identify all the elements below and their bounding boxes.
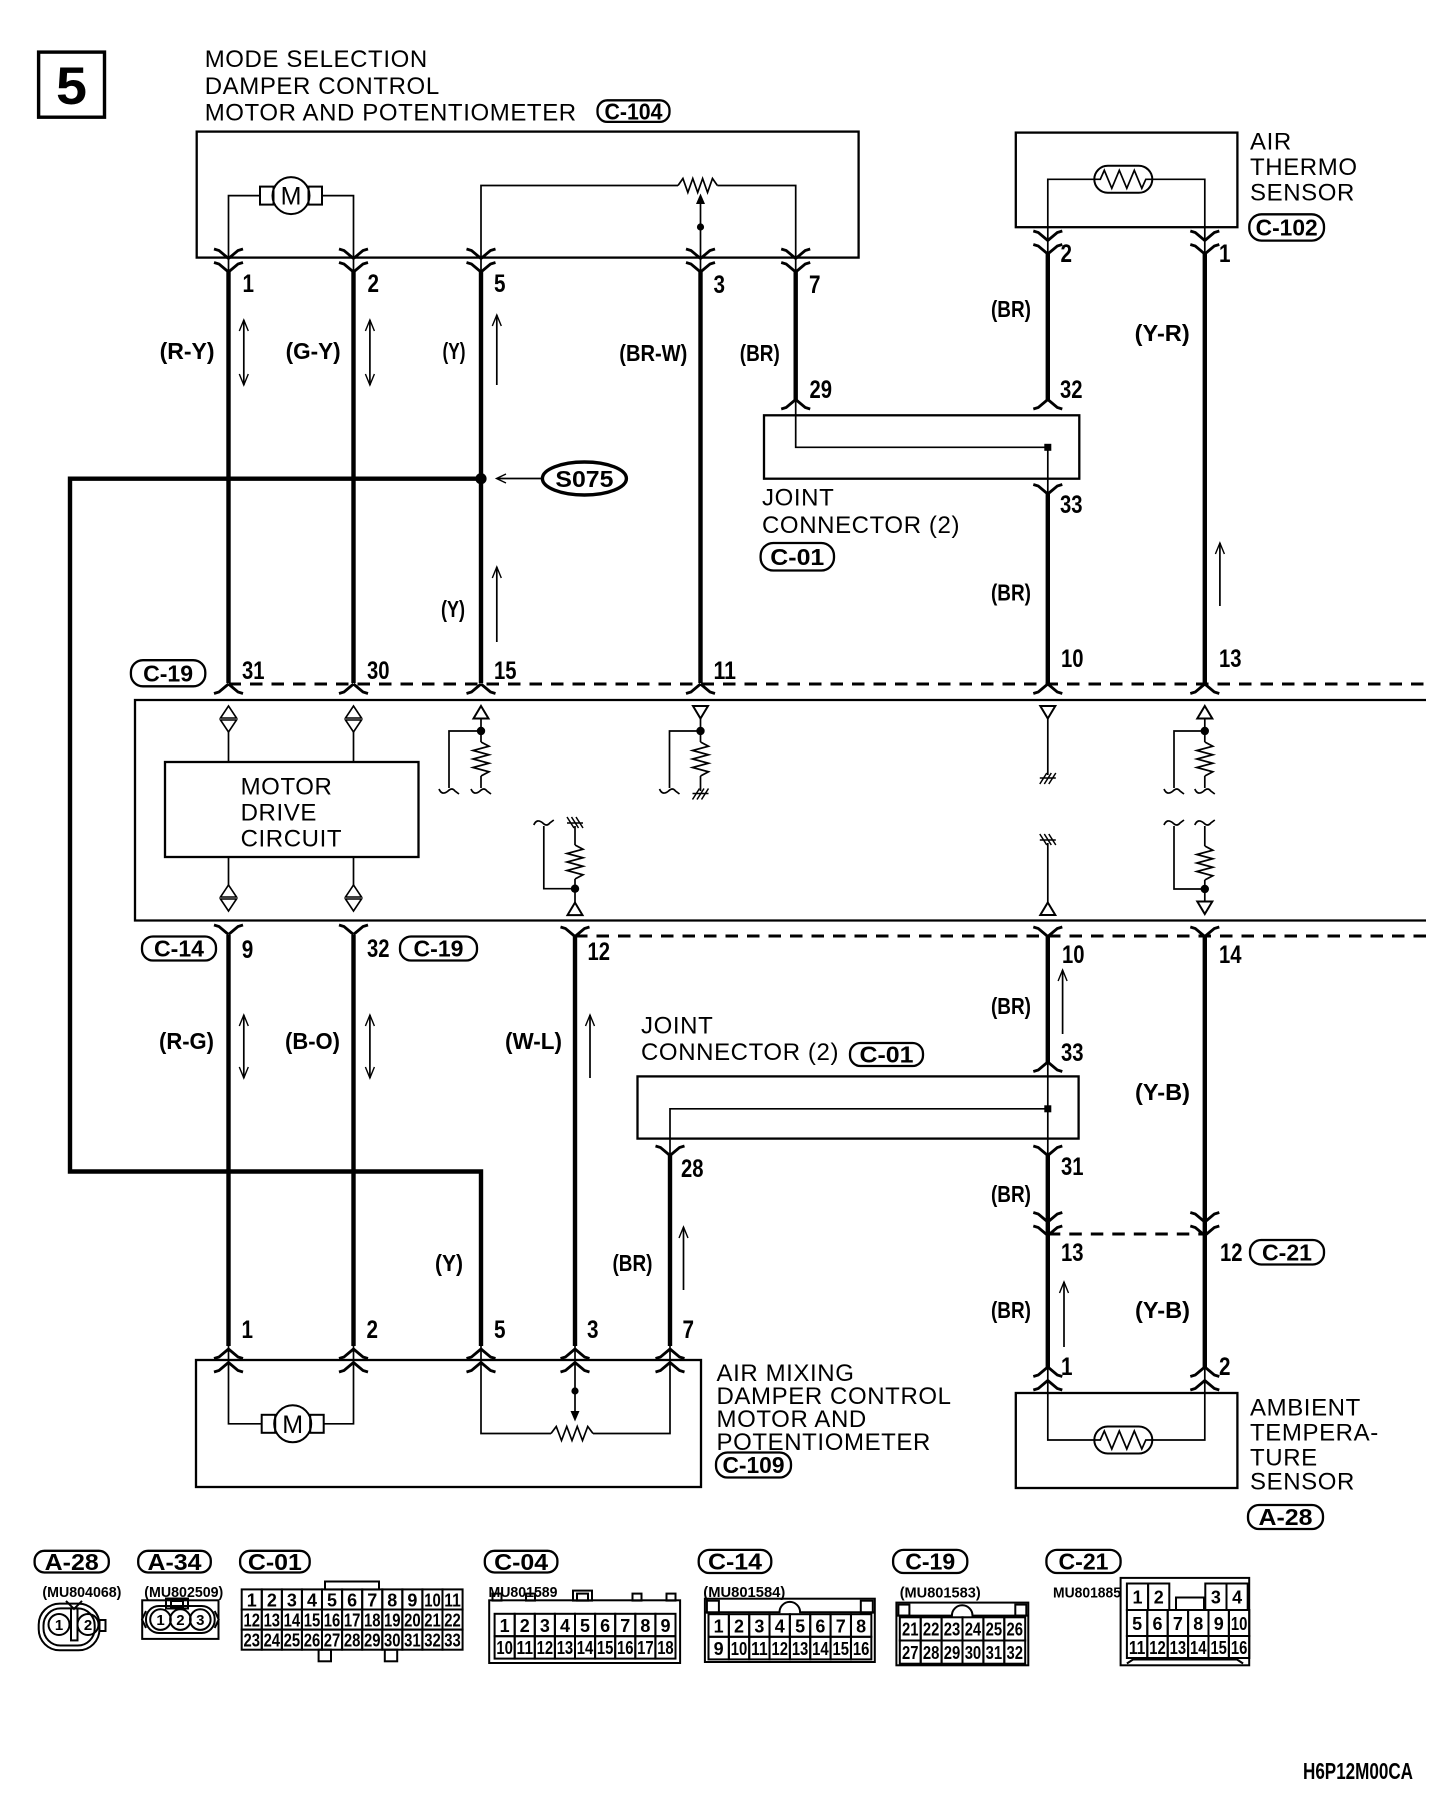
thermistor (ambient temperature sensor) bbox=[1094, 1427, 1152, 1454]
pin 1 of A-28 bbox=[1033, 1381, 1062, 1391]
svg-text:(Y): (Y) bbox=[441, 596, 465, 622]
bidirectional port symbol pin 32 (bottom) bbox=[353, 857, 355, 885]
svg-text:(MU804068): (MU804068) bbox=[42, 1584, 121, 1601]
wire branch from S075 to air mixing damper pin 5 (thick L wire) bbox=[70, 479, 481, 1346]
svg-text:5: 5 bbox=[494, 1316, 506, 1344]
svg-text:25: 25 bbox=[986, 1620, 1003, 1640]
svg-text:31: 31 bbox=[1061, 1153, 1084, 1181]
svg-text:13: 13 bbox=[792, 1639, 809, 1659]
output port + ground pin 10 (top) bbox=[1040, 706, 1055, 719]
motor drive circuit box bbox=[165, 762, 419, 857]
C-21 row2 pin grid bbox=[1127, 1610, 1147, 1636]
svg-text:A-34: A-34 bbox=[148, 1549, 202, 1575]
pinout label A-34 bbox=[138, 1551, 211, 1573]
potentiometer wiper arrow bbox=[700, 203, 702, 258]
svg-text:3: 3 bbox=[754, 1616, 764, 1636]
bidirectional port symbol pin 9 (bottom) bbox=[228, 857, 230, 885]
svg-text:5: 5 bbox=[56, 57, 87, 116]
svg-text:(Y): (Y) bbox=[435, 1250, 463, 1276]
svg-text:29: 29 bbox=[364, 1630, 381, 1650]
svg-text:11: 11 bbox=[1129, 1638, 1146, 1658]
svg-text:(BR): (BR) bbox=[740, 340, 780, 366]
svg-text:AIR: AIR bbox=[1250, 129, 1292, 156]
joint connector (2) C-01 top box bbox=[764, 415, 1079, 478]
potentiometer (mode selection) bbox=[481, 186, 678, 258]
svg-text:12: 12 bbox=[1149, 1638, 1166, 1658]
svg-text:(W-L): (W-L) bbox=[505, 1028, 562, 1054]
svg-text:20: 20 bbox=[404, 1610, 421, 1630]
C-19 connector face drawing bbox=[896, 1603, 1028, 1666]
wire pin33 joint connector to pin10 C-19 (BR) bbox=[1046, 494, 1050, 683]
svg-text:(Y-B): (Y-B) bbox=[1135, 1297, 1190, 1323]
bidirectional port symbol pin 31 bbox=[221, 706, 237, 718]
svg-text:1: 1 bbox=[242, 1316, 254, 1344]
svg-text:12: 12 bbox=[537, 1638, 554, 1658]
svg-text:21: 21 bbox=[902, 1620, 919, 1640]
svg-text:1: 1 bbox=[55, 1617, 63, 1634]
svg-text:15: 15 bbox=[494, 657, 517, 685]
svg-text:10: 10 bbox=[424, 1590, 441, 1610]
svg-text:26: 26 bbox=[304, 1630, 321, 1650]
pin 7 of C-104 bbox=[781, 249, 810, 259]
svg-text:10: 10 bbox=[731, 1639, 748, 1659]
svg-text:28: 28 bbox=[923, 1643, 940, 1663]
svg-text:(MU801583): (MU801583) bbox=[900, 1585, 981, 1602]
svg-text:30: 30 bbox=[965, 1643, 982, 1663]
output port + resistor network + ground pin 11 bbox=[693, 706, 708, 719]
svg-text:AMBIENT: AMBIENT bbox=[1250, 1395, 1361, 1422]
C-21 bottom lip bbox=[1127, 1660, 1243, 1664]
pin 14 of C-19 (bottom) bbox=[1190, 927, 1219, 937]
pin 10 of C-19 (bottom) bbox=[1033, 927, 1062, 937]
svg-text:13: 13 bbox=[1170, 1638, 1187, 1658]
svg-text:(BR): (BR) bbox=[991, 1181, 1031, 1207]
svg-text:5: 5 bbox=[795, 1616, 805, 1636]
connector label C-102 bbox=[1249, 214, 1324, 240]
svg-text:31: 31 bbox=[986, 1643, 1003, 1663]
pinout label A-28 bbox=[35, 1551, 109, 1573]
wire: motor leads to pins 1 and 2 bbox=[229, 196, 261, 258]
svg-text:15: 15 bbox=[597, 1638, 614, 1658]
svg-text:21: 21 bbox=[424, 1610, 441, 1630]
pinout label C-01 bbox=[240, 1551, 310, 1573]
svg-text:M: M bbox=[281, 183, 302, 211]
svg-text:24: 24 bbox=[965, 1620, 982, 1640]
svg-text:10: 10 bbox=[1062, 941, 1085, 969]
svg-text:12: 12 bbox=[243, 1610, 260, 1630]
svg-text:(Y-B): (Y-B) bbox=[1135, 1079, 1190, 1105]
pin 1 of C-104 bbox=[214, 249, 243, 259]
svg-text:7: 7 bbox=[836, 1616, 846, 1636]
svg-text:(BR): (BR) bbox=[991, 1297, 1031, 1323]
svg-text:(BR-W): (BR-W) bbox=[619, 340, 687, 366]
wire pin14 C-19 to pin12 C-21 to pin2 A-28 (Y-B) bbox=[1203, 936, 1207, 1367]
svg-text:8: 8 bbox=[387, 1590, 397, 1610]
input port + pull-up resistor network pin 13 bbox=[1197, 706, 1212, 719]
sheet number box 5 bbox=[39, 52, 105, 117]
svg-text:9: 9 bbox=[714, 1639, 724, 1659]
svg-text:14: 14 bbox=[577, 1638, 594, 1658]
input port + pull-up resistor network pin 15 bbox=[474, 706, 489, 719]
wire pin12 C-19 to pin3 C-109 (W-L) bbox=[573, 936, 577, 1346]
svg-text:C-21: C-21 bbox=[1262, 1239, 1312, 1265]
svg-text:MU801589: MU801589 bbox=[489, 1584, 558, 1601]
pin 5 of C-104 bbox=[467, 249, 496, 259]
pin 31 of C-19 bbox=[214, 684, 243, 694]
svg-text:16: 16 bbox=[853, 1639, 870, 1659]
joint connector bus bar bbox=[796, 400, 1048, 494]
svg-text:7: 7 bbox=[1173, 1614, 1183, 1634]
svg-text:29: 29 bbox=[944, 1643, 961, 1663]
svg-text:MODE SELECTION: MODE SELECTION bbox=[205, 46, 428, 73]
svg-text:9: 9 bbox=[660, 1616, 670, 1636]
svg-text:23: 23 bbox=[944, 1620, 961, 1640]
svg-text:22: 22 bbox=[444, 1610, 461, 1630]
A-34 connector face drawing bbox=[142, 1600, 218, 1639]
svg-text:2: 2 bbox=[84, 1617, 92, 1634]
svg-text:3: 3 bbox=[587, 1316, 599, 1344]
air thermo sensor C-102 box bbox=[1016, 133, 1238, 228]
wire pin2 C-104 to pin30 C-19 (G-Y) bbox=[351, 272, 355, 684]
inline connector C-21 dashed line bbox=[1048, 1233, 1205, 1236]
svg-text:TURE: TURE bbox=[1250, 1445, 1318, 1472]
ground port pin 10 (bottom) bbox=[1040, 834, 1056, 845]
wire pin32 C-19 to pin2 C-109 (B-O) bbox=[351, 935, 355, 1346]
svg-text:MOTOR AND POTENTIOMETER: MOTOR AND POTENTIOMETER bbox=[205, 100, 577, 127]
svg-text:2: 2 bbox=[367, 1316, 379, 1344]
svg-text:(BR): (BR) bbox=[991, 580, 1031, 606]
svg-text:12: 12 bbox=[1220, 1239, 1243, 1267]
svg-text:3: 3 bbox=[196, 1612, 204, 1629]
svg-text:33: 33 bbox=[444, 1630, 461, 1650]
svg-text:2: 2 bbox=[368, 270, 380, 298]
potentiometer (air mixing) bbox=[481, 1360, 551, 1434]
svg-text:1: 1 bbox=[1133, 1588, 1143, 1608]
connector label C-19 bottom bbox=[400, 937, 477, 961]
svg-text:18: 18 bbox=[657, 1638, 674, 1658]
svg-text:10: 10 bbox=[1061, 645, 1084, 673]
svg-text:7: 7 bbox=[809, 271, 821, 299]
pin 10 of C-19 bbox=[1033, 684, 1062, 694]
svg-text:32: 32 bbox=[367, 935, 390, 963]
svg-text:13: 13 bbox=[264, 1610, 281, 1630]
svg-text:8: 8 bbox=[640, 1616, 650, 1636]
pin 15 of C-19 bbox=[467, 684, 496, 694]
motor M (air mixing damper) bbox=[262, 1415, 276, 1433]
pin 3 of C-109 bbox=[561, 1363, 590, 1373]
connector label A-28 (sensor) bbox=[1248, 1505, 1323, 1529]
svg-text:15: 15 bbox=[833, 1639, 850, 1659]
svg-text:15: 15 bbox=[1210, 1638, 1227, 1658]
svg-text:SENSOR: SENSOR bbox=[1250, 180, 1355, 207]
svg-text:3: 3 bbox=[540, 1616, 550, 1636]
resistor network pin 14 (bottom) bbox=[1164, 820, 1184, 825]
pull-down resistor network pin 12 (bottom) bbox=[567, 817, 583, 828]
svg-text:(BR): (BR) bbox=[613, 1250, 653, 1276]
pin 13 of C-19 bbox=[1190, 684, 1219, 694]
pin 2 of C-109 bbox=[339, 1363, 368, 1373]
pin 3 of C-104 bbox=[686, 249, 715, 259]
svg-text:1: 1 bbox=[156, 1612, 164, 1629]
svg-text:7: 7 bbox=[620, 1616, 630, 1636]
svg-text:22: 22 bbox=[923, 1620, 940, 1640]
svg-text:1: 1 bbox=[1061, 1353, 1073, 1381]
C-04 connector face drawing bbox=[489, 1600, 680, 1663]
C-21 connector face drawing bbox=[1121, 1578, 1250, 1665]
svg-text:C-04: C-04 bbox=[494, 1549, 548, 1575]
svg-text:19: 19 bbox=[384, 1610, 401, 1630]
svg-text:28: 28 bbox=[344, 1630, 361, 1650]
svg-text:32: 32 bbox=[1007, 1643, 1024, 1663]
svg-text:14: 14 bbox=[1219, 941, 1242, 969]
connector label C-14 bbox=[142, 937, 216, 961]
svg-text:3: 3 bbox=[1211, 1588, 1221, 1608]
svg-text:2: 2 bbox=[734, 1616, 744, 1636]
svg-text:C-102: C-102 bbox=[1256, 215, 1318, 241]
pin 28 of joint connector bbox=[656, 1146, 685, 1156]
svg-text:14: 14 bbox=[812, 1639, 829, 1659]
svg-text:28: 28 bbox=[681, 1155, 704, 1183]
wire pin1 C-104 to pin31 C-19 (R-Y) bbox=[226, 272, 230, 684]
svg-text:10: 10 bbox=[1231, 1614, 1248, 1634]
pin 32 of joint connector bbox=[1033, 400, 1062, 410]
svg-text:S075: S075 bbox=[555, 466, 613, 492]
svg-text:32: 32 bbox=[424, 1630, 441, 1650]
pin 33 of joint connector (bottom) bbox=[1033, 1062, 1062, 1072]
svg-text:THERMO: THERMO bbox=[1250, 154, 1358, 181]
connector label C-104 bbox=[598, 100, 670, 122]
svg-text:(B-O): (B-O) bbox=[285, 1028, 340, 1054]
pin 29 of joint connector bbox=[781, 400, 810, 410]
svg-text:2: 2 bbox=[267, 1590, 277, 1610]
svg-text:9: 9 bbox=[407, 1590, 417, 1610]
connector label C-19 top bbox=[131, 660, 205, 686]
svg-text:4: 4 bbox=[307, 1590, 317, 1610]
ambient temperature sensor A-28 box bbox=[1016, 1393, 1238, 1488]
svg-text:DRIVE: DRIVE bbox=[241, 799, 317, 826]
svg-text:29: 29 bbox=[810, 376, 833, 404]
svg-text:6: 6 bbox=[347, 1590, 357, 1610]
joint connector (2) C-01 bottom box bbox=[638, 1076, 1079, 1138]
svg-text:6: 6 bbox=[815, 1616, 825, 1636]
svg-text:C-14: C-14 bbox=[708, 1549, 762, 1575]
svg-text:5: 5 bbox=[327, 1590, 337, 1610]
A-28 connector face drawing bbox=[39, 1604, 100, 1651]
svg-text:9: 9 bbox=[1214, 1614, 1224, 1634]
wire pin2 C-102 to pin32 joint connector (BR) bbox=[1046, 254, 1050, 400]
svg-text:C-19: C-19 bbox=[905, 1549, 955, 1575]
svg-text:32: 32 bbox=[1060, 376, 1083, 404]
svg-text:3: 3 bbox=[714, 271, 726, 299]
svg-text:C-01: C-01 bbox=[248, 1549, 302, 1575]
svg-text:SENSOR: SENSOR bbox=[1250, 1469, 1355, 1496]
svg-text:9: 9 bbox=[242, 936, 254, 964]
svg-text:5: 5 bbox=[580, 1616, 590, 1636]
svg-text:(G-Y): (G-Y) bbox=[286, 338, 341, 364]
svg-text:2: 2 bbox=[1061, 240, 1073, 268]
svg-text:(BR): (BR) bbox=[991, 296, 1031, 322]
svg-text:TEMPERA-: TEMPERA- bbox=[1250, 1420, 1379, 1447]
svg-text:(Y-R): (Y-R) bbox=[1135, 320, 1190, 346]
svg-text:C-104: C-104 bbox=[605, 98, 663, 124]
svg-text:6: 6 bbox=[1153, 1614, 1163, 1634]
svg-text:(R-G): (R-G) bbox=[159, 1028, 214, 1054]
svg-text:C-19: C-19 bbox=[414, 936, 464, 962]
pin 12 of C-19 (bottom) bbox=[561, 927, 590, 937]
wire pin9 C-14 to pin1 C-109 (R-G) bbox=[226, 935, 230, 1346]
wire pin10 C-19 to pin33 joint connector (BR) bbox=[1046, 936, 1050, 1062]
svg-text:8: 8 bbox=[856, 1616, 866, 1636]
svg-text:11: 11 bbox=[517, 1638, 534, 1658]
pin 2 of C-104 bbox=[339, 249, 368, 259]
svg-text:27: 27 bbox=[324, 1630, 341, 1650]
svg-text:CIRCUIT: CIRCUIT bbox=[241, 825, 343, 852]
svg-text:JOINT: JOINT bbox=[641, 1013, 713, 1040]
svg-text:2: 2 bbox=[1219, 1353, 1231, 1381]
svg-text:(R-Y): (R-Y) bbox=[160, 338, 215, 364]
C-19 pin grid bbox=[900, 1617, 921, 1640]
mode selection damper control motor and potentiometer C-104 box bbox=[197, 132, 859, 258]
svg-text:1: 1 bbox=[500, 1616, 510, 1636]
pin 2 of C-102 bbox=[1033, 231, 1062, 241]
svg-text:5: 5 bbox=[494, 270, 506, 298]
svg-text:A-28: A-28 bbox=[45, 1549, 99, 1575]
svg-text:(Y): (Y) bbox=[443, 338, 466, 364]
svg-text:13: 13 bbox=[557, 1638, 574, 1658]
wire pin7 C-104 to pin29 joint connector (BR) bbox=[794, 272, 798, 400]
connector label C-01 bottom bbox=[850, 1043, 923, 1066]
pin 1 of C-102 bbox=[1190, 231, 1219, 241]
svg-text:3: 3 bbox=[287, 1590, 297, 1610]
pin 5 of C-109 bbox=[467, 1363, 496, 1373]
wire pin1 C-102 to pin13 C-19 (Y-R) bbox=[1203, 254, 1207, 684]
svg-text:(BR): (BR) bbox=[991, 993, 1031, 1019]
thermistor (air thermo sensor) bbox=[1094, 166, 1152, 193]
C-21 row 1 cells bbox=[1127, 1584, 1148, 1611]
svg-text:C-19: C-19 bbox=[143, 660, 193, 686]
svg-text:7: 7 bbox=[367, 1590, 377, 1610]
svg-text:14: 14 bbox=[284, 1610, 301, 1630]
svg-text:30: 30 bbox=[367, 657, 390, 685]
svg-text:DAMPER CONTROL: DAMPER CONTROL bbox=[205, 73, 440, 100]
svg-text:A-28: A-28 bbox=[1259, 1504, 1313, 1530]
svg-text:12: 12 bbox=[588, 938, 611, 966]
pinout label C-14 bbox=[699, 1550, 772, 1573]
svg-text:4: 4 bbox=[775, 1616, 785, 1636]
svg-text:26: 26 bbox=[1007, 1620, 1024, 1640]
potentiometer wiper arrow (air mixing) bbox=[574, 1360, 576, 1411]
svg-text:2: 2 bbox=[520, 1616, 530, 1636]
svg-text:33: 33 bbox=[1060, 491, 1083, 519]
svg-text:18: 18 bbox=[364, 1610, 381, 1630]
pin 13 of C-21 bbox=[1033, 1213, 1062, 1223]
C-14 pin grid bbox=[709, 1614, 729, 1637]
svg-text:17: 17 bbox=[637, 1638, 654, 1658]
splice S075 junction dot bbox=[475, 473, 486, 484]
connector row C-19 dashed line (top) bbox=[229, 683, 1427, 686]
dashed line bottom connector row bbox=[575, 935, 1426, 938]
pinout label C-19 bbox=[893, 1550, 967, 1573]
pinout label C-04 bbox=[485, 1551, 558, 1573]
svg-text:MU801885: MU801885 bbox=[1053, 1585, 1121, 1602]
svg-text:16: 16 bbox=[324, 1610, 341, 1630]
svg-text:11: 11 bbox=[714, 657, 737, 685]
svg-text:1: 1 bbox=[247, 1590, 257, 1610]
wire pin5 C-104 to pin15 C-19 (Y) bbox=[479, 272, 483, 684]
C-01 pin grid bbox=[242, 1589, 262, 1609]
svg-text:31: 31 bbox=[242, 657, 265, 685]
svg-text:11: 11 bbox=[444, 1590, 461, 1610]
svg-text:1: 1 bbox=[1219, 240, 1231, 268]
pin 32 of C-19 (bottom) bbox=[339, 925, 368, 935]
svg-text:C-14: C-14 bbox=[154, 936, 204, 962]
C-21 row3 pin grid bbox=[1127, 1636, 1147, 1658]
svg-text:24: 24 bbox=[264, 1630, 281, 1650]
svg-text:13: 13 bbox=[1219, 645, 1242, 673]
bidirectional port symbol pin 30 bbox=[346, 706, 362, 718]
C-01 connector face drawing bbox=[325, 1582, 379, 1590]
pin 30 of C-19 bbox=[339, 684, 368, 694]
svg-text:17: 17 bbox=[344, 1610, 361, 1630]
pin 9 of C-14 bbox=[214, 925, 243, 935]
svg-text:2: 2 bbox=[1154, 1588, 1164, 1608]
joint connector bus bar (bottom) bbox=[670, 1109, 1048, 1156]
svg-text:27: 27 bbox=[902, 1643, 919, 1663]
pin 31 of joint connector bbox=[1033, 1146, 1062, 1156]
C-04 pin grid bbox=[495, 1614, 515, 1636]
pin 11 of C-19 bbox=[686, 684, 715, 694]
svg-text:MOTOR: MOTOR bbox=[241, 773, 333, 800]
svg-text:15: 15 bbox=[304, 1610, 321, 1630]
svg-text:CONNECTOR (2): CONNECTOR (2) bbox=[762, 512, 960, 539]
C-14 connector face drawing bbox=[705, 1599, 875, 1662]
pin 33 of joint connector bbox=[1033, 485, 1062, 495]
svg-text:4: 4 bbox=[1232, 1588, 1242, 1608]
splice S075 callout bbox=[542, 462, 626, 495]
svg-text:12: 12 bbox=[771, 1639, 788, 1659]
svg-text:31: 31 bbox=[404, 1630, 421, 1650]
svg-text:C-109: C-109 bbox=[723, 1452, 785, 1478]
wire: thermistor leads to pins 2 and 1 bbox=[1048, 179, 1095, 227]
svg-text:33: 33 bbox=[1061, 1039, 1084, 1067]
svg-text:8: 8 bbox=[1193, 1614, 1203, 1634]
svg-text:6: 6 bbox=[600, 1616, 610, 1636]
wire pin28 joint connector to pin7 C-109 (BR) bbox=[668, 1156, 672, 1347]
svg-text:JOINT: JOINT bbox=[762, 484, 834, 511]
motor M (mode selection damper) bbox=[260, 187, 274, 205]
wire pin3 C-104 to pin11 C-19 (BR-W) bbox=[698, 272, 702, 684]
svg-text:C-01: C-01 bbox=[860, 1042, 914, 1068]
ECU box (motor drive circuit unit) bbox=[135, 700, 1426, 921]
svg-text:25: 25 bbox=[284, 1630, 301, 1650]
svg-text:23: 23 bbox=[243, 1630, 260, 1650]
svg-text:16: 16 bbox=[617, 1638, 634, 1658]
svg-text:C-21: C-21 bbox=[1059, 1549, 1109, 1575]
svg-text:4: 4 bbox=[560, 1616, 570, 1636]
svg-text:C-01: C-01 bbox=[770, 544, 824, 570]
svg-text:5: 5 bbox=[1132, 1614, 1142, 1634]
svg-text:M: M bbox=[282, 1411, 303, 1439]
svg-text:1: 1 bbox=[243, 270, 255, 298]
svg-text:30: 30 bbox=[384, 1630, 401, 1650]
svg-text:13: 13 bbox=[1061, 1239, 1084, 1267]
pin 2 of A-28 bbox=[1190, 1381, 1219, 1391]
svg-text:CONNECTOR (2): CONNECTOR (2) bbox=[641, 1039, 839, 1066]
svg-text:7: 7 bbox=[683, 1316, 695, 1344]
connector label C-01 top bbox=[761, 543, 834, 571]
pin 12 of C-21 bbox=[1190, 1213, 1219, 1223]
pinout label C-21 bbox=[1046, 1550, 1120, 1573]
